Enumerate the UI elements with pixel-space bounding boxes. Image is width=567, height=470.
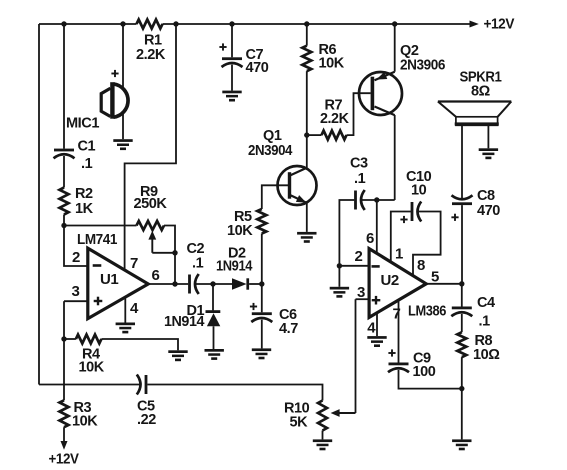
diode D1 1N914 (206, 310, 221, 313)
node: junction R6/R7/Q1 collector (304, 132, 309, 137)
ground (output network) (452, 439, 471, 442)
resistor R4 (76, 335, 102, 344)
wire: C6 to ground (261, 320, 263, 349)
wire: junction down to D1 cathode (212, 284, 214, 310)
svg-text:C8: C8 (477, 188, 495, 204)
wire: rail to R6 (306, 24, 308, 46)
wire: C8 to output node (461, 205, 463, 284)
wire: R7 to Q2 base (347, 93, 371, 135)
svg-text:2N3906: 2N3906 (400, 58, 445, 74)
svg-text:2: 2 (355, 248, 363, 265)
svg-text:.22: .22 (137, 412, 156, 428)
node: junction C3 row / U2 pin6 (374, 197, 379, 202)
polarity + (MIC1) (111, 73, 118, 75)
resistor R3 (60, 400, 69, 427)
ground (R4) (168, 350, 187, 353)
wire: C5 to R10 top (147, 385, 322, 401)
wire: R10 to ground (322, 431, 324, 440)
node: junction R9 wiper/right end (172, 250, 177, 255)
svg-text:10K: 10K (227, 223, 253, 239)
node: rail junction right of R1 (173, 21, 178, 26)
svg-text:LM386: LM386 (408, 304, 446, 320)
wire: Q2 collector to C3 (361, 199, 395, 201)
capacitor C1 (54, 149, 74, 152)
transistor Q2 2N3906 (359, 72, 402, 115)
non-inverting input plus (U1) (94, 300, 103, 302)
wire: U2 pin 3 stub (356, 298, 370, 300)
wire: C1 to R2 (63, 156, 65, 188)
svg-text:C3: C3 (350, 156, 368, 172)
capacitor C4 (452, 307, 472, 310)
wire: rail step down to U1 pin 7 (125, 24, 176, 270)
svg-text:8: 8 (417, 257, 425, 274)
svg-text:2: 2 (72, 249, 80, 266)
polarity + (C7) (219, 46, 226, 48)
svg-text:10K: 10K (319, 56, 345, 72)
svg-text:470: 470 (246, 60, 269, 76)
node: junction U2 pin2/ground (337, 263, 342, 268)
node: junction U2 output/C8/C4 (459, 281, 464, 286)
wire: output node to C4 (461, 284, 463, 307)
node: rail junction to C1/R2 branch (61, 21, 66, 26)
wire: C2 to D2 anode (195, 283, 232, 285)
wire: Q2 collector down to C3 row (394, 115, 396, 200)
wire: R9 right end down (164, 226, 175, 253)
ground (Q1 emitter) (297, 232, 316, 235)
speaker SPKR1 (438, 100, 511, 102)
wire: C7 to ground (231, 65, 233, 91)
svg-text:.1: .1 (81, 156, 93, 172)
svg-text:2.2K: 2.2K (320, 111, 349, 127)
capacitor C10 (411, 202, 414, 221)
wire: C5 row left segment (39, 384, 141, 386)
node: junction pin3/R4/R3 (61, 336, 66, 341)
wire: U1 pin 4 stub (124, 298, 126, 323)
wire: C3 left to U2 pin 2 column (339, 200, 354, 266)
svg-text:+12V: +12V (484, 17, 515, 33)
svg-text:470: 470 (477, 203, 500, 219)
wire: D2 cathode to detector node (249, 283, 262, 285)
wire: R8 to bottom ground (461, 357, 463, 439)
svg-text:10: 10 (411, 183, 427, 199)
wire: left border vertical (rail down to C5 row) (38, 24, 40, 385)
wire: rail to C7 (231, 24, 233, 57)
+12V rail arrow (470, 21, 479, 28)
wire: R6 to Q1 collector node (306, 71, 308, 135)
wire: R2 to inverting node (63, 215, 65, 226)
wire: pin2 node to ground (338, 266, 340, 287)
capacitor C8 (452, 202, 472, 205)
wire: R4 right to ground (101, 339, 178, 350)
wire: +12V top rail left segment (39, 23, 137, 25)
ground (R10) (313, 439, 332, 442)
resistor R2 (60, 188, 69, 215)
capacitor C2 (188, 275, 191, 294)
wire: Q1 collector up (306, 135, 308, 168)
op-amp U2 LM386 (369, 249, 426, 318)
diode D2 1N914 (232, 278, 247, 289)
svg-text:3: 3 (72, 283, 80, 300)
resistor R1 (137, 20, 163, 29)
svg-text:1: 1 (395, 246, 403, 263)
wire: U1 output (148, 283, 188, 285)
ground (C7) (222, 91, 241, 94)
svg-text:6: 6 (366, 230, 374, 247)
svg-text:LM741: LM741 (77, 232, 117, 248)
wire: +12V top rail right segment (163, 23, 471, 25)
wire: D1 anode to ground (213, 326, 215, 349)
svg-text:5K: 5K (290, 415, 309, 431)
wire: Q1 base to R5 (262, 185, 288, 209)
wire: U2 pin 2 stub (339, 265, 369, 267)
polarity + (C8) (451, 216, 458, 218)
svg-text:10K: 10K (72, 414, 98, 430)
inverting input minus (U2) (372, 265, 380, 268)
node: rail junction to MIC1 (120, 21, 125, 26)
svg-text:1N914: 1N914 (216, 259, 252, 275)
svg-text:8Ω: 8Ω (471, 84, 491, 100)
op-amp U1 LM741 (88, 248, 148, 318)
wire: R9 column to U1 output (174, 253, 176, 284)
wire: R4 left to node (64, 338, 76, 340)
resistor R6 (302, 46, 311, 71)
resistor R9 250K pot (137, 221, 165, 230)
ground (C6) (252, 348, 271, 351)
svg-text:6: 6 (152, 267, 160, 284)
R10 wiper arrow (339, 412, 355, 414)
transistor Q1 2N3904 (278, 166, 317, 205)
wire: pin 3 down to R10 wiper (355, 299, 357, 413)
resistor R10 5K pot (318, 401, 327, 431)
svg-text:2N3904: 2N3904 (248, 143, 292, 159)
wire: U2 pin 7 stub down (398, 300, 400, 362)
svg-text:10K: 10K (79, 360, 105, 376)
svg-text:+12V: +12V (49, 452, 80, 468)
ground (U2 pin 4) (367, 336, 386, 339)
wire: MIC1 to ground (122, 114, 124, 140)
svg-text:2.2K: 2.2K (136, 47, 166, 63)
wire: R4 node down to R3 (63, 339, 65, 400)
ground (D1) (205, 349, 224, 352)
node: junction D2/C6/R5 (259, 281, 264, 286)
svg-text:U2: U2 (381, 272, 399, 289)
resistor R8 (457, 332, 466, 357)
svg-text:U1: U1 (100, 271, 118, 288)
svg-text:1K: 1K (75, 201, 94, 217)
non-inverting input plus (U2) (372, 299, 381, 301)
wire: R3 to +12V arrow (63, 427, 65, 441)
ground (U2 pin 2) (330, 287, 349, 290)
svg-text:.1: .1 (192, 256, 204, 272)
svg-text:7: 7 (130, 255, 138, 272)
node: rail junction to R6 (304, 21, 309, 26)
wire: C10 right to U2 pin 8 (413, 212, 441, 277)
wire: C4 to R8 (461, 314, 463, 332)
wire: speaker right terminal to ground (487, 125, 489, 148)
polarity + (C9) (388, 352, 395, 354)
wire: U2 output (426, 283, 462, 285)
wire: inverting node down to U1 pin 2 (64, 226, 88, 267)
wire: rail to C1 (63, 24, 65, 149)
wire: C9 to output column (399, 370, 462, 389)
svg-text:Q1: Q1 (263, 128, 282, 144)
svg-text:250K: 250K (134, 196, 168, 212)
wire: pin 3 down to R4 node (63, 301, 65, 339)
capacitor C6 (252, 312, 272, 315)
polarity + (C6) (250, 306, 257, 308)
node: junction U1 output/R9 (172, 281, 177, 286)
wire: inverting node to R9 left (64, 225, 137, 227)
wire: U2 pin 6 stub (376, 200, 378, 254)
node: rail junction to C7 (229, 21, 234, 26)
wire: speaker left terminal to C8 (461, 125, 463, 199)
ground (SPKR1) (479, 148, 498, 151)
capacitor C3 (354, 191, 357, 210)
svg-text:100: 100 (413, 364, 436, 380)
wire: U2 pin 4 stub (376, 313, 378, 336)
wire: U1 pin 3 stub (64, 300, 88, 302)
svg-text:C4: C4 (477, 295, 495, 311)
node: rail junction to Q2 emitter (392, 21, 397, 26)
svg-text:.1: .1 (479, 314, 491, 330)
ground (MIC1) (113, 139, 132, 142)
wire: R5 to detector node (261, 234, 263, 285)
resistor R7 (322, 131, 347, 140)
svg-text:MIC1: MIC1 (66, 116, 99, 132)
svg-text:4: 4 (367, 320, 376, 337)
svg-text:C1: C1 (78, 139, 96, 155)
wire: detector node to C6 (261, 284, 263, 312)
wire: R9 wiper to right column (152, 252, 175, 254)
svg-text:R2: R2 (75, 186, 93, 202)
svg-text:10Ω: 10Ω (473, 347, 500, 363)
wire: rail to Q2 emitter (394, 24, 396, 72)
node: junction R8/C9 return (459, 386, 464, 391)
ground (U1 pin 4) (116, 323, 135, 326)
polarity + (C10) (400, 219, 407, 221)
svg-text:1N914: 1N914 (164, 314, 204, 330)
svg-text:4.7: 4.7 (279, 321, 298, 337)
wire: node to R7 (307, 134, 322, 136)
node: junction R2/R9/pin2 (61, 223, 66, 228)
+12V arrow (bottom) (61, 441, 68, 450)
node: junction C2/D1/D2 (210, 281, 215, 286)
inverting input minus (U1) (93, 264, 102, 267)
wire: rail to MIC1 plus terminal (122, 24, 124, 88)
svg-text:4: 4 (130, 300, 139, 317)
capacitor C5 (145, 375, 148, 394)
svg-text:.1: .1 (354, 171, 366, 187)
resistor R5 (257, 209, 266, 234)
wire: U2 pin 1 stub to C10 (391, 212, 411, 263)
microphone MIC1 (110, 82, 114, 119)
wire: Q1 emitter to ground (306, 203, 308, 232)
capacitor C9 (389, 363, 409, 366)
capacitor C7 (222, 57, 242, 60)
R9 wiper arrow (151, 240, 153, 253)
